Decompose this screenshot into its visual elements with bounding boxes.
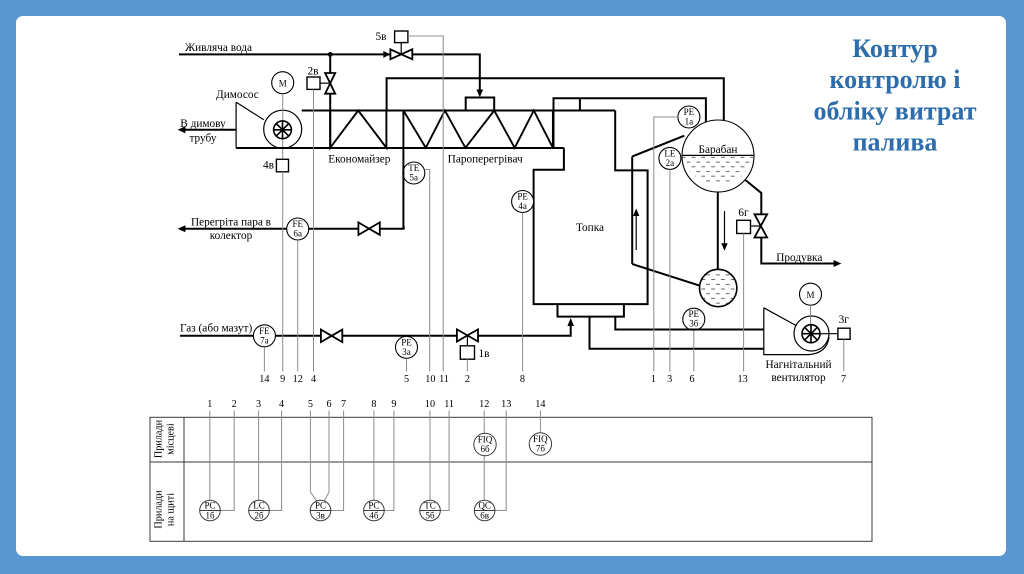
svg-text:PE: PE	[517, 192, 528, 202]
gas duct band top	[302, 110, 616, 112]
svg-text:FIQ: FIQ	[478, 435, 493, 445]
svg-text:4: 4	[311, 374, 316, 385]
svg-text:6: 6	[326, 399, 331, 410]
svg-text:6: 6	[689, 374, 694, 385]
svg-text:11: 11	[439, 374, 449, 385]
instrument PE1a	[678, 106, 700, 128]
svg-text:Барабан: Барабан	[699, 144, 738, 156]
instrument LC2б	[249, 500, 270, 521]
svg-text:М: М	[806, 290, 814, 300]
signal 1в to 2	[466, 359, 468, 371]
svg-text:4б: 4б	[369, 511, 379, 521]
signal PE4a to 8	[522, 213, 524, 372]
svg-text:3: 3	[667, 374, 672, 385]
arrow feed water flow	[383, 51, 390, 58]
wire blowdown	[745, 180, 838, 264]
svg-text:9: 9	[280, 374, 285, 385]
riser flow arrow	[633, 209, 639, 251]
wire steam to collector	[180, 226, 404, 229]
attemperator box	[466, 98, 495, 111]
svg-text:Прилади: Прилади	[154, 490, 165, 529]
svg-text:FE: FE	[292, 219, 303, 229]
smoke exhauster fan	[236, 94, 302, 160]
signal PE1a to 1	[654, 117, 678, 372]
svg-text:3а: 3а	[402, 347, 411, 357]
instrument FIQ6б	[474, 433, 496, 455]
steam outlet box	[554, 98, 580, 110]
svg-text:ТЕ: ТЕ	[408, 163, 419, 173]
instrument PE3б	[683, 308, 705, 330]
riser diagonal to drum	[632, 136, 684, 157]
svg-text:6а: 6а	[293, 229, 302, 239]
wire air duct top	[615, 317, 764, 330]
svg-text:LE: LE	[664, 148, 675, 158]
svg-text:TC: TC	[424, 501, 436, 511]
svg-text:LC: LC	[253, 501, 265, 511]
table row label Прилади на щиті	[154, 490, 177, 529]
actuator 4в	[263, 159, 288, 172]
instrument PC4б	[364, 500, 385, 521]
signal PE3a to 5	[406, 358, 408, 371]
forced draft fan	[764, 305, 838, 354]
svg-text:3г: 3г	[839, 314, 850, 326]
svg-text:3в: 3в	[316, 511, 325, 521]
table frame	[150, 417, 872, 541]
svg-text:колектор: колектор	[210, 230, 253, 242]
svg-text:2в: 2в	[308, 65, 319, 77]
svg-text:обліку витрат: обліку витрат	[814, 96, 977, 125]
svg-text:місцеві: місцеві	[166, 423, 177, 455]
svg-text:5: 5	[308, 399, 313, 410]
svg-text:QC: QC	[478, 501, 491, 511]
valve gas	[321, 330, 342, 343]
superheater coil	[403, 111, 553, 148]
actuator 3г	[838, 314, 850, 340]
furnace bottom step	[558, 304, 624, 317]
svg-text:палива: палива	[853, 128, 938, 157]
svg-text:2б: 2б	[254, 511, 264, 521]
svg-text:PC: PC	[315, 501, 326, 511]
svg-text:на щиті: на щиті	[166, 493, 177, 526]
instrument FE7a	[253, 325, 275, 347]
loop numbers row	[259, 374, 846, 385]
svg-text:3б: 3б	[689, 319, 699, 329]
svg-text:вентилятор: вентилятор	[771, 372, 826, 384]
svg-text:Пароперегрівач: Пароперегрівач	[448, 154, 523, 166]
svg-text:5: 5	[404, 374, 409, 385]
wire drum steam to superheater	[554, 98, 706, 148]
signal 2в to 4	[313, 89, 315, 371]
svg-text:Економайзер: Економайзер	[328, 154, 391, 166]
svg-text:1: 1	[207, 399, 212, 410]
svg-text:14: 14	[535, 399, 545, 410]
wire to chimney	[180, 129, 236, 131]
valve 1в	[457, 329, 490, 360]
economizer coil	[330, 111, 386, 148]
svg-text:11: 11	[444, 399, 454, 410]
svg-text:10: 10	[425, 374, 435, 385]
svg-text:7а: 7а	[260, 335, 269, 345]
svg-text:13: 13	[501, 399, 511, 410]
wire superheater outlet down	[402, 148, 404, 229]
svg-text:13: 13	[738, 374, 748, 385]
svg-text:8: 8	[371, 399, 376, 410]
instrument FIQ7б	[529, 433, 551, 455]
svg-text:1в: 1в	[479, 348, 490, 360]
svg-text:FIQ: FIQ	[533, 434, 548, 444]
instrument FE6a	[287, 218, 309, 240]
signal PE3б to 6	[693, 330, 695, 371]
svg-text:контролю і: контролю і	[829, 65, 960, 94]
signal LE2a to 3	[669, 169, 671, 371]
signal FE7a to 14	[263, 347, 265, 372]
table row label Прилади місцеві	[154, 419, 177, 458]
mud drum	[700, 269, 737, 306]
svg-text:7: 7	[841, 374, 846, 385]
svg-text:Димосос: Димосос	[216, 89, 259, 101]
table column wires	[209, 411, 211, 501]
svg-text:PE: PE	[689, 309, 700, 319]
signal FE6a to 12	[297, 240, 299, 372]
svg-text:5а: 5а	[410, 173, 419, 183]
svg-text:14: 14	[259, 374, 269, 385]
svg-text:12: 12	[479, 399, 489, 410]
node feed junction	[328, 52, 333, 57]
svg-text:PC: PC	[204, 501, 215, 511]
svg-text:4в: 4в	[263, 160, 274, 172]
svg-text:Перегріта пара в: Перегріта пара в	[191, 217, 271, 229]
motor M forced fan	[800, 283, 822, 305]
svg-text:Продувка: Продувка	[776, 252, 822, 264]
signal 6г to 13	[743, 234, 745, 372]
svg-text:В димову: В димову	[180, 118, 226, 130]
svg-text:1б: 1б	[205, 511, 215, 521]
instrument TE5a	[403, 162, 425, 184]
table header numbers	[207, 399, 545, 410]
svg-text:Нагнітальний: Нагнітальний	[765, 359, 831, 371]
svg-text:5б: 5б	[425, 511, 435, 521]
instrument PC3в	[310, 500, 331, 521]
wire economizer outlet to drum	[387, 78, 724, 121]
svg-text:Живляча вода: Живляча вода	[185, 42, 252, 54]
svg-text:Топка: Топка	[576, 222, 604, 234]
valve 6г	[737, 207, 767, 238]
valve 2в	[307, 65, 335, 93]
svg-text:4: 4	[279, 399, 284, 410]
drum Барабан	[682, 120, 754, 192]
svg-text:М: М	[279, 79, 287, 89]
wire feed water main line	[179, 54, 480, 93]
svg-text:Газ (або мазут): Газ (або мазут)	[180, 322, 252, 334]
svg-text:3: 3	[256, 399, 261, 410]
svg-text:9: 9	[391, 399, 396, 410]
svg-text:1а: 1а	[685, 117, 694, 127]
valve 5в	[376, 31, 413, 59]
svg-text:2: 2	[232, 399, 237, 410]
svg-text:1: 1	[651, 374, 656, 385]
signal TE5a to 10	[424, 170, 429, 372]
wire feed branch to economizer	[329, 54, 331, 148]
furnace Топка	[534, 111, 648, 305]
svg-text:6в: 6в	[480, 511, 489, 521]
valve steam collector	[358, 222, 379, 235]
wire gas line	[180, 322, 571, 336]
svg-text:12: 12	[293, 374, 303, 385]
svg-text:8: 8	[520, 374, 525, 385]
arrow into attemperator	[476, 90, 483, 98]
instrument TC5б	[420, 500, 441, 521]
svg-text:4а: 4а	[518, 201, 527, 211]
instrument PC1б	[200, 500, 221, 521]
svg-text:5в: 5в	[376, 31, 387, 43]
instrument LE2a	[659, 147, 681, 169]
svg-text:PC: PC	[368, 501, 379, 511]
svg-text:FE: FE	[259, 326, 270, 336]
motor M smoke exhauster	[272, 72, 294, 94]
svg-text:6б: 6б	[480, 444, 490, 454]
svg-text:2: 2	[465, 374, 470, 385]
signal 4в to 9	[282, 172, 284, 372]
svg-text:PE: PE	[401, 337, 412, 347]
svg-text:6г: 6г	[738, 207, 749, 219]
downcomer flow arrow	[721, 211, 727, 251]
instrument PE4a	[512, 191, 534, 213]
title	[814, 34, 977, 157]
gas duct band bottom	[236, 147, 564, 149]
signal 5в to 11	[408, 36, 443, 372]
svg-text:трубу: трубу	[189, 133, 216, 145]
svg-text:Контур: Контур	[852, 34, 937, 63]
svg-text:Прилади: Прилади	[154, 419, 165, 458]
wire air duct bottom	[590, 317, 764, 349]
svg-text:7б: 7б	[536, 444, 546, 454]
wire drum to mud drum	[717, 192, 719, 270]
signal 3г to 7	[843, 339, 845, 371]
svg-text:2а: 2а	[666, 158, 675, 168]
instrument QC6в	[474, 500, 495, 521]
riser channel left	[631, 157, 633, 265]
instrument PE3a	[396, 336, 418, 358]
svg-text:PE: PE	[684, 107, 695, 117]
svg-text:7: 7	[341, 399, 346, 410]
riser diagonal to mud drum	[632, 264, 699, 286]
svg-text:10: 10	[425, 399, 435, 410]
